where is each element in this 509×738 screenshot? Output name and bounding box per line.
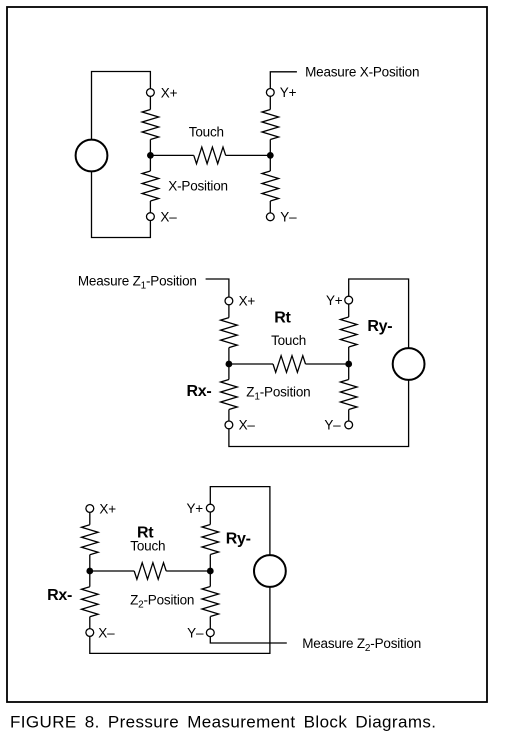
svg-text:X+: X+ <box>161 85 178 100</box>
wire X- bottom rail to source VS3 <box>90 587 270 654</box>
svg-text:Touch: Touch <box>130 538 165 553</box>
svg-text:Rx-: Rx- <box>47 587 72 604</box>
resistor R10 (X+ to node E) <box>82 525 99 555</box>
wire X+ to R5 <box>228 305 230 318</box>
wire Y+ top rail to source VS2 <box>349 279 409 348</box>
terminal X+ <box>225 297 233 305</box>
terminal Y+ <box>345 296 353 304</box>
wire touch resistor to node F <box>166 570 210 572</box>
svg-text:Ry-: Ry- <box>226 531 251 548</box>
node B junction dot <box>267 152 274 159</box>
node D junction dot <box>345 361 352 368</box>
wire R8 to node D <box>348 347 350 380</box>
resistor R4 (node B to Y-) <box>262 171 279 201</box>
resistor Rtouch (Touch) <box>194 147 226 164</box>
resistor R13 Ry- (Y+ to node F) <box>202 525 219 555</box>
svg-text:X–: X– <box>239 418 256 433</box>
svg-text:X–: X– <box>98 625 115 640</box>
terminal Y+ <box>266 89 274 97</box>
resistor R7 Rt (Touch) <box>273 356 306 373</box>
svg-text:FIGURE 8. Pressure Measurement: FIGURE 8. Pressure Measurement Block Dia… <box>10 713 436 732</box>
node F junction dot <box>207 568 214 575</box>
wire X+ to R10 <box>89 512 91 524</box>
terminal Y- <box>266 213 274 221</box>
terminal Y+ <box>206 504 214 512</box>
wire node E to touch resistor <box>90 570 134 572</box>
node E junction dot <box>86 568 93 575</box>
svg-text:X+: X+ <box>99 501 116 516</box>
svg-text:Y–: Y– <box>280 210 297 225</box>
wire R13 to node F <box>209 555 211 587</box>
svg-text:Y–: Y– <box>324 418 341 433</box>
wire R11 to X- <box>89 617 91 629</box>
wire Y+ to R8 <box>348 304 350 317</box>
resistor R6 Rx- (node C to X-) <box>221 380 238 410</box>
node A junction dot <box>147 152 154 159</box>
terminal X+ <box>86 505 94 513</box>
wire R3 to node B <box>269 140 271 172</box>
resistor R12 Rt (Touch) <box>134 563 166 580</box>
svg-text:X–: X– <box>160 209 177 224</box>
resistor R9 (node D to Y-) <box>340 380 357 410</box>
resistor R11 Rx- (node E to X-) <box>82 587 99 617</box>
svg-text:Y–: Y– <box>187 625 204 640</box>
voltage source VS1 <box>76 140 108 172</box>
resistor R1 (X+ to node) <box>142 110 159 140</box>
resistor R2 X-Position (node to X-) <box>142 171 159 201</box>
svg-text:Ry-: Ry- <box>367 318 392 335</box>
wire measure stub to X+ <box>206 279 229 297</box>
wire node A to touch resistor <box>150 154 193 156</box>
wire VS1 bottom loop to X- <box>92 171 151 237</box>
svg-text:Rx-: Rx- <box>187 383 212 400</box>
wire Y+ to R13 <box>209 512 211 525</box>
wire X- to bottom rail to source <box>229 380 409 447</box>
wire touch resistor to node D <box>306 363 349 365</box>
svg-text:X-Position: X-Position <box>168 179 228 194</box>
node C junction dot <box>226 361 233 368</box>
svg-text:Touch: Touch <box>271 333 306 348</box>
terminal X- <box>86 629 94 637</box>
svg-text:Touch: Touch <box>189 124 224 139</box>
terminal X- <box>147 213 155 221</box>
wire R10 to node E <box>89 555 91 587</box>
svg-text:Y+: Y+ <box>280 85 297 100</box>
terminal X- <box>225 421 233 429</box>
voltage source VS3 <box>254 555 286 587</box>
wire R1 to node A <box>149 140 151 172</box>
wire X+ to R1 <box>149 96 151 109</box>
wire R6 to X- <box>228 410 230 422</box>
wire R9 to Y- <box>348 410 350 422</box>
wire R4 to Y- <box>269 201 271 213</box>
svg-text:Y+: Y+ <box>326 293 343 308</box>
terminal Y- <box>206 629 214 637</box>
wire R2 to X- <box>149 201 151 213</box>
svg-text:Y+: Y+ <box>187 501 204 516</box>
svg-text:Rt: Rt <box>274 310 291 327</box>
wire node C to touch resistor <box>229 363 273 365</box>
voltage source VS2 <box>393 348 425 380</box>
resistor R8 Ry- (Y+ to node D) <box>340 317 357 347</box>
wire Y- to measure stub <box>210 637 286 643</box>
resistor R5 (X+ to node C) <box>221 318 238 348</box>
wire Y+ to measure stub <box>270 72 297 89</box>
wire R14 to Y- <box>209 617 211 629</box>
wire Y+ to R3 <box>269 96 271 109</box>
resistor R3 (Y+ to node B) <box>262 110 279 140</box>
svg-text:Measure X-Position: Measure X-Position <box>305 65 419 80</box>
svg-text:X+: X+ <box>239 294 256 309</box>
wire R5 to node C <box>228 348 230 380</box>
wire VS1 top loop to X+ <box>92 72 151 140</box>
terminal Y- <box>345 421 353 429</box>
wire touch resistor to node B <box>226 154 271 156</box>
terminal X+ <box>147 89 155 97</box>
wire Y+ top rail to source VS3 <box>210 487 270 555</box>
resistor R14 (node F to Y-) <box>202 587 219 617</box>
